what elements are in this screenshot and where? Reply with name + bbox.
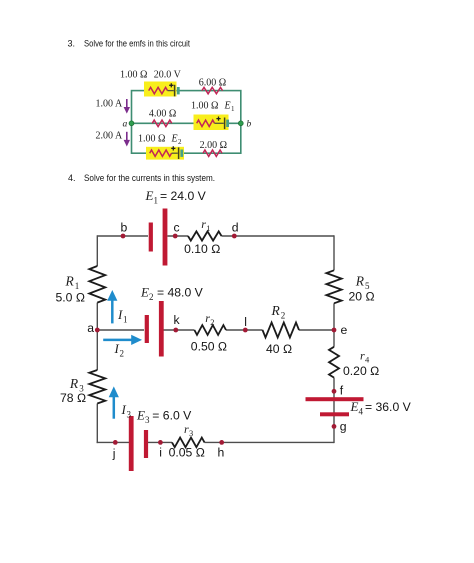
wire middle r2 to l to R2: [226, 329, 263, 331]
svg-text:2.00 Ω: 2.00 Ω: [200, 140, 227, 151]
svg-text:78 Ω: 78 Ω: [60, 391, 86, 405]
highlight box middle branch: [194, 115, 229, 131]
svg-text:1.00 Ω: 1.00 Ω: [138, 134, 165, 145]
svg-text:Solve for the emfs in this cir: Solve for the emfs in this circuit: [84, 38, 190, 48]
resistor R2 40 ohm: [263, 323, 300, 338]
wire middle R2 to e: [299, 329, 334, 331]
resistor 1.00 ohm (bottom): [150, 150, 172, 156]
node i: [158, 440, 163, 445]
battery 20.0 V short plate: [177, 87, 180, 94]
svg-text:i: i: [159, 446, 162, 460]
svg-text:2: 2: [178, 138, 182, 146]
svg-text:6.00 Ω: 6.00 Ω: [199, 78, 226, 89]
battery E1 short plate: [149, 223, 153, 252]
current arrow 1.00 A: [124, 99, 130, 114]
wire middle k to r2: [163, 329, 194, 331]
current arrow 2.00 A: [124, 132, 130, 147]
svg-text:E: E: [350, 399, 359, 414]
battery E2 short plate: [180, 150, 183, 157]
svg-text:b: b: [247, 120, 252, 130]
node g: [332, 424, 337, 429]
svg-text:3: 3: [189, 428, 193, 438]
node j: [113, 440, 118, 445]
svg-text:b: b: [121, 221, 128, 235]
svg-text:R: R: [69, 376, 79, 391]
wire middle a to battery E2: [97, 329, 144, 331]
resistor 6.00 ohm: [202, 87, 223, 93]
battery E1 long plate: [163, 209, 168, 266]
battery E1 short plate: [226, 120, 229, 127]
resistor R3 78 ohm: [89, 370, 105, 404]
resistor 1.00 ohm (middle): [197, 120, 215, 126]
svg-text:E: E: [171, 134, 178, 145]
svg-text:d: d: [232, 221, 239, 235]
node k: [173, 328, 178, 333]
battery E2 long plate: [159, 301, 164, 357]
battery E4 short plate: [320, 412, 349, 416]
svg-text:1: 1: [75, 281, 80, 291]
battery E1 long plate: [224, 118, 226, 130]
wire right side top to R5: [333, 235, 335, 270]
svg-text:1: 1: [154, 196, 159, 206]
wire right side R5 to e: [333, 303, 335, 347]
wire middle branch a to b: [132, 122, 241, 124]
wire outer frame: [132, 91, 241, 154]
node c: [173, 234, 178, 239]
svg-text:1.00 Ω: 1.00 Ω: [120, 70, 147, 81]
svg-text:1: 1: [206, 223, 210, 233]
battery E3 short plate: [144, 430, 148, 458]
node h: [219, 440, 224, 445]
node f: [332, 389, 337, 394]
resistor r3 0.05 ohm: [172, 438, 205, 448]
svg-text:1: 1: [231, 105, 235, 113]
resistor r2 0.50 ohm: [194, 325, 226, 335]
svg-text:2: 2: [210, 317, 214, 327]
svg-text:E: E: [224, 101, 231, 112]
resistor 2.00 ohm: [203, 150, 222, 156]
wire left side R1 to a: [96, 303, 98, 370]
svg-text:l: l: [244, 315, 247, 329]
svg-text:3.: 3.: [68, 38, 76, 48]
node d: [232, 234, 237, 239]
current arrow I2: [103, 335, 142, 345]
svg-text:a: a: [87, 321, 94, 335]
resistor r4 0.20 ohm: [329, 347, 339, 378]
svg-text:4: 4: [365, 355, 370, 365]
svg-text:2: 2: [149, 292, 154, 302]
wire left side R3 to bottom: [96, 404, 98, 444]
node a: [95, 328, 100, 333]
plus sign E1: [216, 117, 220, 121]
svg-text:0.20 Ω: 0.20 Ω: [343, 364, 379, 378]
resistor R1 5.0 ohm: [89, 266, 105, 303]
node a (top circuit): [129, 121, 134, 126]
svg-text:2.00 A: 2.00 A: [96, 131, 123, 142]
svg-text:1.00 A: 1.00 A: [96, 99, 123, 110]
highlight box bottom branch: [146, 147, 184, 160]
highlight box top branch: [144, 82, 177, 97]
resistor 4.00 ohm (middle branch): [152, 120, 172, 126]
svg-text:0.05 Ω: 0.05 Ω: [169, 446, 205, 460]
battery 20.0 V long plate: [174, 85, 176, 97]
wire left side top: [96, 235, 98, 266]
svg-text:= 48.0 V: = 48.0 V: [157, 286, 204, 300]
svg-text:R: R: [355, 274, 365, 289]
svg-text:0.50 Ω: 0.50 Ω: [191, 340, 227, 354]
wire in middle box: [215, 122, 224, 124]
battery E3 long plate: [129, 416, 134, 471]
current arrow I1: [107, 290, 117, 323]
current arrow I3: [109, 386, 119, 418]
node b (top circuit): [238, 121, 243, 126]
svg-text:20 Ω: 20 Ω: [349, 290, 375, 304]
svg-text:0.10 Ω: 0.10 Ω: [184, 242, 220, 256]
svg-text:3: 3: [145, 415, 150, 425]
wire bottom i to r3: [148, 441, 172, 443]
wire bottom r3 to right corner: [205, 441, 335, 443]
resistor 1.00 ohm (top branch): [149, 87, 168, 93]
svg-text:20.0 V: 20.0 V: [154, 70, 182, 81]
plus sign top battery: [169, 83, 173, 87]
svg-text:4.00 Ω: 4.00 Ω: [149, 109, 176, 120]
svg-text:4.: 4.: [68, 173, 76, 183]
svg-text:c: c: [174, 221, 180, 235]
svg-text:2: 2: [281, 311, 286, 321]
wire top side left of battery: [97, 235, 148, 237]
svg-text:R: R: [271, 303, 281, 318]
wire bottom left to battery E3: [97, 441, 129, 443]
svg-text:40 Ω: 40 Ω: [266, 342, 292, 356]
svg-text:f: f: [340, 384, 344, 398]
svg-text:5.0 Ω: 5.0 Ω: [56, 291, 85, 305]
svg-text:4: 4: [359, 407, 364, 417]
svg-text:= 24.0 V: = 24.0 V: [160, 189, 207, 203]
battery E2 short plate: [145, 315, 149, 343]
svg-text:E: E: [145, 188, 154, 203]
svg-text:3: 3: [127, 410, 132, 420]
wire right side battery to bottom: [333, 400, 335, 443]
svg-text:E: E: [140, 285, 149, 300]
resistor R5 20 ohm: [326, 270, 341, 303]
svg-text:a: a: [123, 120, 128, 130]
battery E2 long plate: [178, 147, 180, 159]
plus sign E2: [171, 146, 175, 150]
node l: [243, 328, 248, 333]
wire right side r4 to battery: [333, 378, 335, 398]
svg-text:1.00 Ω: 1.00 Ω: [191, 101, 218, 112]
resistor r1 0.10 ohm: [188, 231, 222, 240]
svg-text:h: h: [218, 446, 225, 460]
node e: [332, 328, 337, 333]
svg-text:E: E: [136, 408, 145, 423]
svg-text:j: j: [112, 447, 116, 461]
svg-text:e: e: [341, 323, 348, 337]
wire top side r1 to right corner: [222, 235, 335, 237]
wire in bottom box: [172, 152, 178, 154]
svg-text:k: k: [174, 313, 181, 327]
battery E4 long plate: [306, 397, 364, 401]
svg-text:2: 2: [120, 349, 125, 359]
svg-text:1: 1: [123, 315, 128, 325]
wire segment in top box: [168, 90, 174, 92]
svg-text:R: R: [65, 274, 75, 289]
node b: [121, 234, 126, 239]
svg-text:Solve for the currents in thi: Solve for the currents in this system.: [84, 173, 215, 183]
wire top side c to r1: [168, 235, 189, 237]
svg-text:g: g: [340, 419, 347, 433]
svg-text:= 36.0 V: = 36.0 V: [365, 400, 412, 414]
svg-text:= 6.0 V: = 6.0 V: [152, 409, 192, 423]
